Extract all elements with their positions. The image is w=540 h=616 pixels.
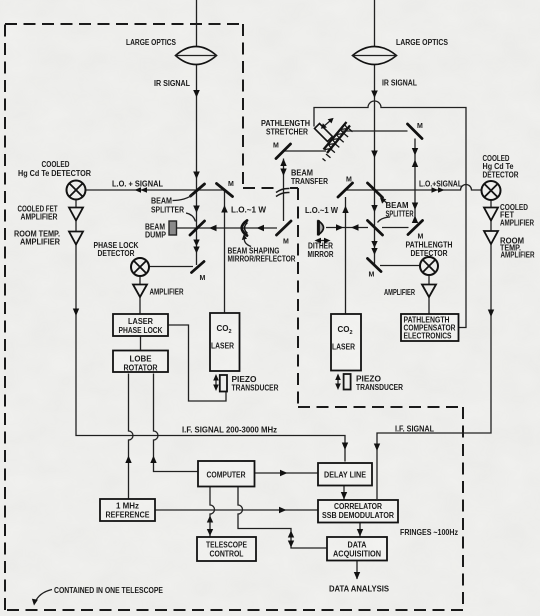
- arrow up 1 MHz into lobe rotator: [125, 456, 131, 464]
- mirror M1: [217, 184, 233, 197]
- beam transfer break symbol at enclosure wall: [276, 188, 290, 196]
- arrow right away from dither mirror: [336, 224, 344, 230]
- pathlength stretcher hatched mirror: [323, 122, 353, 161]
- mirror M upper right: [408, 124, 423, 139]
- box CO2 laser right: [331, 314, 361, 371]
- arrow down correlator to data acquisition: [357, 529, 363, 537]
- wire beam transfer vertical between mirrors: [283, 159, 285, 222]
- arrow down left detector chain: [73, 309, 79, 317]
- box data acquisition: [327, 537, 387, 561]
- arrow up right stretcher path below signal line: [412, 216, 418, 224]
- leader from splitter label to lower splitter: [186, 213, 196, 222]
- wire pathlength stretcher to mirror on right: [341, 130, 408, 132]
- arrow down between right splitters: [371, 205, 377, 213]
- box lobe rotator: [113, 351, 168, 373]
- mirror M4 beam transfer lower: [277, 221, 292, 235]
- arrow beam down above left splitter: [193, 172, 200, 180]
- amplifier room temp left (triangle): [69, 232, 83, 245]
- box laser phase lock: [113, 314, 168, 336]
- box computer: [198, 461, 255, 487]
- arrow down I.F. bus into delay line: [342, 443, 348, 451]
- dither mirror (D shape): [319, 221, 324, 235]
- box pathlength compensator electronics: [401, 314, 459, 341]
- arrow right computer to delay line: [280, 470, 288, 476]
- wire computer to delay line: [255, 472, 319, 474]
- wire mirror M3 to phase lock detector: [150, 266, 194, 268]
- arrow IR signal down left: [193, 90, 200, 98]
- arrow double dither mirror motion: [318, 240, 328, 242]
- mirror M beam transfer upper: [276, 144, 291, 159]
- leader from beam splitter label to upper splitter: [173, 195, 194, 201]
- wire pathlength detector to amplifier to compensator electronics: [428, 275, 430, 314]
- wire left detector chain to I.F. bus and delay line: [76, 200, 345, 462]
- phase lock detector (circle with X): [131, 258, 149, 276]
- box 1 MHz reference: [100, 499, 155, 521]
- wire right detector chain to I.F. line into correlator: [377, 200, 491, 499]
- arrow double computer-telescope control: [207, 516, 213, 523]
- arrow down right stretcher path below signal line: [412, 203, 418, 211]
- arrow double down left splitter to mirror M3: [193, 240, 199, 247]
- wire right CO2 laser beam up to mirror M: [345, 197, 347, 314]
- wire L.O.+signal to right detector with hop: [345, 185, 482, 191]
- arrow down right detector chain: [488, 310, 494, 318]
- piezo transducer right: [344, 374, 351, 390]
- arrow double left L.O.+signal left: [135, 187, 142, 193]
- box CO2 laser left: [210, 313, 240, 371]
- box delay line: [318, 463, 372, 486]
- arrow left toward beam shaping mirror: [257, 225, 265, 231]
- amplifier room temp right (triangle): [484, 231, 498, 244]
- wire right telescope IR beam: [374, 0, 376, 265]
- wire left telescope IR beam: [196, 0, 198, 265]
- mirror M3 right: [368, 259, 382, 272]
- wire left CO2 laser beam up to mirror M1: [224, 190, 226, 313]
- mirror M4 right: [408, 221, 423, 235]
- beam splitter left lower: [190, 221, 205, 235]
- beam splitter right lower: [368, 221, 383, 236]
- arrow IR signal down right: [371, 91, 378, 99]
- arrow down to data analysis: [354, 572, 360, 580]
- box telescope control: [197, 537, 256, 561]
- large optics lens right: [353, 47, 397, 65]
- leader contained in one telescope: [35, 590, 52, 603]
- arrow up right laser L.O.: [342, 206, 348, 214]
- wire data acquisition to data analysis: [356, 561, 358, 580]
- pathlength detector (circle with X): [420, 257, 438, 275]
- arrow down between left splitters: [193, 206, 200, 214]
- wire delay line to correlator: [343, 486, 345, 500]
- arrow double right L.O.+signal right: [432, 187, 439, 193]
- arrow up computer line into lobe rotator: [150, 456, 156, 464]
- amplifier phase lock (triangle): [133, 285, 147, 298]
- arrow beam down right telescope: [371, 151, 378, 159]
- wire 1 MHz reference up to lobe rotator: [129, 374, 134, 500]
- leader right splitter label to lower splitter: [378, 217, 391, 223]
- wire L.O.+signal line to left detector: [86, 189, 225, 191]
- arrow double stretcher motion: [324, 120, 331, 126]
- arrow double piezo left: [215, 379, 217, 386]
- wire laser phase lock to piezo transducer: [169, 325, 227, 401]
- beam splitter left upper: [191, 184, 205, 196]
- wire computer to telescope control: [210, 487, 215, 537]
- arrow down right stretcher path: [412, 148, 418, 156]
- beam dump absorber block: [169, 221, 177, 235]
- enclosure dashed boundary "contained in one telescope": [5, 23, 243, 25]
- wire beam transfer mirror to pathlength stretcher: [283, 150, 326, 152]
- pathlength stretcher piston: [315, 124, 333, 142]
- beam shaping mirror/reflector (curved): [242, 221, 247, 236]
- box correlator SSB demodulator: [318, 500, 398, 523]
- arrow double piezo right: [337, 379, 339, 386]
- detector right cooled HgCdTe (circle with X): [482, 181, 501, 200]
- arrow down beam transfer: [280, 169, 286, 177]
- wire correlator to data acquisition: [359, 523, 361, 537]
- mirror M right L.O.: [338, 183, 353, 197]
- wire computer to lobe rotator: [154, 374, 198, 472]
- wire pathlength compensator feedback to stretcher piston: [314, 101, 466, 328]
- beam splitter right upper: [368, 183, 383, 198]
- arrow up left laser L.O.: [221, 205, 228, 213]
- amplifier cooled FET left (triangle): [69, 208, 83, 221]
- wire dither mirror to beam splitter to mirror: [326, 227, 409, 229]
- wire phase lock detector to amplifier to laser phase lock: [139, 276, 141, 314]
- detector left cooled HgCdTe (circle with X): [67, 181, 86, 200]
- mirror M3: [192, 262, 205, 273]
- wire right mirror M to dither line: [414, 139, 416, 221]
- amplifier pathlength (triangle): [422, 285, 436, 298]
- wire 1 MHz reference to correlator: [156, 509, 319, 511]
- arrow down delay line to correlator: [341, 492, 347, 500]
- arrow up beam transfer: [280, 159, 286, 167]
- leader beam shaping mirror label: [244, 237, 251, 247]
- arrow left toward beam dump: [209, 225, 217, 231]
- piezo transducer left: [220, 375, 227, 392]
- wire laser phase lock to lobe rotator: [140, 337, 142, 351]
- wire computer to data acquisition: [238, 487, 327, 549]
- amplifier cooled FET right (triangle): [484, 208, 498, 221]
- arrow up right stretcher path: [412, 160, 418, 168]
- leader arrow right beam splitter label upper: [382, 199, 388, 204]
- wire left L.O. line beam dump to mirror M4: [177, 227, 278, 229]
- arrow double down right splitter to mirror: [371, 241, 377, 248]
- arrow right 1 MHz to correlator: [279, 507, 287, 513]
- large optics lens left: [176, 47, 217, 65]
- wire mirror to pathlength detector: [380, 265, 420, 267]
- arrow down I.F. signal into correlator: [374, 444, 380, 452]
- arrow double computer-data acquisition: [288, 531, 294, 538]
- arrow left toward dither mirror: [351, 224, 359, 230]
